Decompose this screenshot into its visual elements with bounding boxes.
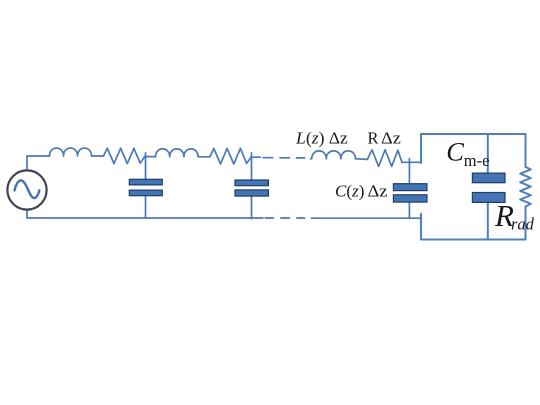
- svg-text:C(z): C(z): [335, 182, 365, 201]
- svg-text:C: C: [446, 136, 464, 166]
- svg-text:L(z): L(z): [295, 129, 325, 148]
- svg-text:Δz: Δz: [381, 129, 401, 148]
- svg-text:R: R: [368, 129, 379, 148]
- svg-text:Δz: Δz: [329, 129, 348, 148]
- svg-text:rad: rad: [511, 215, 535, 234]
- svg-text:m-e: m-e: [464, 151, 490, 170]
- svg-text:Δz: Δz: [368, 182, 388, 201]
